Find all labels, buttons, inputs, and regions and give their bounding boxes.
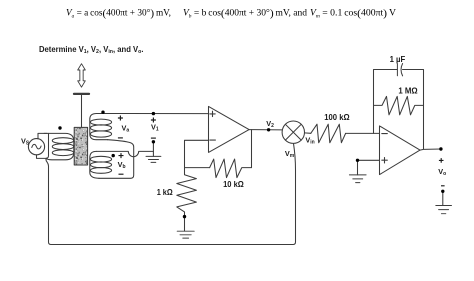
coil a turn 3 (90, 131, 111, 137)
top wire: coil a to op-amp U1 + input, node V1 (97, 113, 209, 115)
coil b turn 3 (90, 168, 111, 174)
minus Va (118, 137, 123, 139)
wire: multiplier output to 100 kΩ (305, 132, 311, 134)
wire source top (38, 133, 47, 138)
node Vo dot (439, 147, 442, 150)
wire: U1 output to multiplier, node V2 (249, 129, 282, 131)
primary coil turn 1 (52, 138, 73, 144)
dot 1kΩ ground (183, 215, 186, 218)
wire 1kΩ to ground (184, 217, 186, 232)
coil b turn 1 (90, 156, 111, 162)
sine wave inside source (32, 144, 41, 149)
wire: U2 output to node Vo (420, 149, 441, 150)
core handle bar (74, 93, 89, 95)
plus Va (118, 116, 123, 121)
svg-text:1 kΩ: 1 kΩ (157, 187, 173, 197)
equation line: Va = a cos(400πt + 30°) mV, (66, 7, 396, 19)
component labels (21, 119, 446, 177)
dot coil a (101, 111, 104, 114)
wire: coil a bottom to series link down (99, 140, 134, 179)
coil b turn 2 (90, 162, 111, 168)
V1 ground stem (152, 142, 154, 157)
primary coil outer loop (44, 133, 74, 159)
wire: U1 inverting input to feedback node (185, 140, 210, 167)
resistor 1 MΩ (374, 96, 424, 114)
secondary coil a outer loop (90, 114, 110, 140)
dot U2 + ground (356, 159, 359, 162)
minus Vb (119, 173, 124, 175)
plus Vo (439, 158, 444, 163)
ground under U2 + input (349, 175, 366, 183)
Vo ground stem (442, 191, 444, 205)
svg-text:Vb = b cos(400πt + 30°) mV, an: Vb = b cos(400πt + 30°) mV, and (183, 7, 307, 19)
wire: 100 kΩ to U2 inverting input (346, 132, 380, 134)
svg-text:Vm = 0.1 cos(400πt) V: Vm = 0.1 cos(400πt) V (310, 7, 396, 19)
node V2 dot (267, 128, 270, 131)
coil a turn 1 (90, 119, 111, 125)
resistor 1 kΩ (177, 168, 197, 217)
secondary coil b outer loop (90, 151, 99, 178)
capacitor 1 µF plates (397, 64, 402, 76)
svg-text:10 kΩ: 10 kΩ (223, 179, 244, 189)
resistor 10 kΩ (210, 159, 252, 178)
op-amp U2 (380, 126, 421, 175)
resistor 100 kΩ (311, 124, 346, 143)
minus Vo (441, 185, 445, 187)
plus V1 (151, 118, 156, 123)
multiplier circle (282, 121, 304, 143)
wire: capacitor right to feedback right (403, 70, 424, 150)
svg-text:1 MΩ: 1 MΩ (398, 86, 418, 96)
movable-core double arrow (78, 64, 86, 87)
multiplier X (285, 124, 301, 140)
dot V1 minus (152, 140, 155, 143)
ground under V1 (146, 156, 161, 162)
dot primary (58, 126, 61, 129)
op-amp U1 (209, 106, 250, 152)
core stem (81, 95, 83, 127)
svg-text:1 µF: 1 µF (390, 54, 406, 64)
node V1 dot (152, 112, 155, 115)
wire: feedback left rise (374, 70, 398, 134)
wire primary loop left side (46, 133, 49, 158)
wire: U2 + input to ground (358, 160, 380, 175)
U2 plus sign (382, 158, 388, 164)
transformer core (74, 127, 87, 165)
coil a turn 2 (90, 125, 111, 131)
dot coil b (112, 154, 115, 157)
ground under Vo (436, 206, 452, 214)
ground under 1 kΩ (177, 231, 194, 238)
wire source bottom (37, 155, 46, 159)
dot Vo ground (441, 190, 444, 193)
polarity marks (118, 116, 445, 186)
svg-text:Determine V1, V2, Vin, and Vo.: Determine V1, V2, Vin, and Vo. (39, 45, 144, 55)
svg-text:100 kΩ: 100 kΩ (324, 112, 350, 122)
source Vs circle (28, 139, 44, 155)
wire: center tap to ground with hop over series link (96, 151, 153, 156)
primary coil turn 3 (52, 150, 73, 156)
primary coil turn 2 (52, 144, 73, 150)
wire: feedback up to U1 output (251, 130, 253, 168)
U2 minus sign (382, 133, 388, 135)
svg-text:Va = a cos(400πt + 30°) mV,: Va = a cos(400πt + 30°) mV, (66, 7, 171, 19)
U1 plus sign (210, 111, 215, 116)
minus V1 (151, 137, 156, 139)
U1 minus sign (210, 139, 216, 141)
wire: source bottom node down to bottom rail, along and up to multiplier Vm input (46, 144, 296, 245)
plus Vb (119, 153, 124, 158)
